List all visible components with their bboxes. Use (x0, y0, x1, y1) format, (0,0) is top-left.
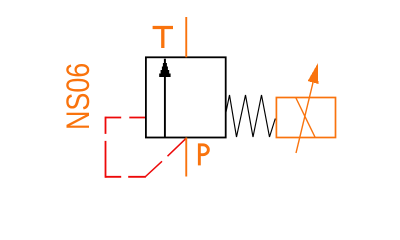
pilot line top horizontal dashes (106, 117, 146, 119)
label T (153, 26, 173, 48)
flow arrow stem (164, 76, 166, 138)
spring (226, 95, 276, 137)
adjustable restrictor box (276, 98, 335, 138)
T port line (185, 17, 187, 57)
pilot line left vertical dashes (105, 117, 107, 178)
pilot line diagonal dashes (145, 138, 186, 177)
P port line (185, 138, 187, 177)
valve body box (146, 57, 226, 137)
restrictor cross line (296, 98, 316, 138)
pilot line bottom horizontal dashes (106, 176, 146, 178)
flow arrow head (stepped) (159, 59, 170, 77)
adjustment arrow shaft (296, 83, 313, 154)
adjustment arrow head (308, 63, 319, 84)
svg-text:NS06: NS06 (61, 63, 97, 130)
label P (199, 143, 208, 165)
